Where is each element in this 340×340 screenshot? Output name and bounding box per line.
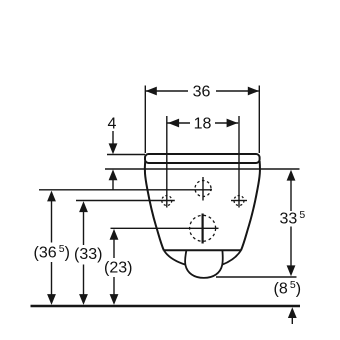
- bowl right edge: [241, 161, 260, 250]
- water supply circle N1: [195, 181, 211, 197]
- dim 36 line left segment: [146, 90, 188, 92]
- 33_5 down arrowhead: [287, 265, 296, 276]
- left dim line (36_5): [51, 193, 53, 302]
- (36_5) down arrowhead: [47, 294, 56, 305]
- (23) down arrowhead: [110, 294, 119, 305]
- left fixing hole cross horizontal (merged with left leader): [76, 200, 175, 202]
- outlet tongue: [185, 250, 223, 278]
- dim 18 right arrowhead: [227, 119, 238, 128]
- dim 4 down arrowhead: [109, 143, 118, 154]
- svg-text:(33): (33): [74, 246, 102, 263]
- dim 36 right arrowhead: [248, 87, 259, 96]
- right dim line 33_5: [290, 173, 292, 274]
- toilet top plate: [145, 154, 260, 163]
- bowl underside right arc: [222, 250, 241, 264]
- dim 4 up arrow shaft: [112, 174, 114, 190]
- outlet cross vertical: [202, 214, 204, 244]
- svg-text:(23): (23): [104, 260, 132, 277]
- right fixing hole cross vertical / 18 extension: [238, 116, 240, 208]
- left fixing hole: [162, 196, 172, 206]
- dim 4 down arrow shaft: [112, 131, 114, 150]
- floor up arrow shaft: [291, 311, 293, 324]
- svg-text:(8 5): (8 5): [274, 279, 302, 298]
- left dim line (23): [113, 232, 115, 303]
- (33) up arrowhead: [79, 201, 88, 212]
- water supply cross horizontal (merged with left leader): [39, 189, 212, 191]
- dim 36 line right segment: [216, 90, 259, 92]
- floor line: [31, 305, 301, 307]
- svg-text:36: 36: [193, 84, 211, 101]
- outlet bottom leader line: [216, 276, 297, 278]
- seat line: [105, 168, 300, 170]
- (36_5) up arrowhead: [47, 191, 56, 202]
- right fixing hole: [234, 196, 244, 206]
- top surface leader line: [107, 154, 145, 156]
- right fixing hole cross horizontal: [231, 200, 247, 202]
- outlet cross horizontal (merged with left leader): [111, 227, 219, 229]
- dim 18 line left segment: [168, 122, 191, 124]
- (23) up arrowhead: [110, 229, 119, 240]
- floor up arrowhead: [288, 307, 297, 318]
- bowl left edge: [145, 161, 164, 250]
- dim 18 line right segment: [215, 122, 238, 124]
- bowl underside left arc: [164, 250, 186, 264]
- svg-text:(36 5): (36 5): [34, 243, 70, 262]
- dim 36 left extension: [144, 86, 146, 154]
- dim 4 up arrowhead: [109, 169, 118, 180]
- left dim line (33): [83, 204, 85, 302]
- water supply cross vertical: [202, 177, 204, 201]
- left fixing hole cross vertical / 18 extension: [166, 116, 168, 208]
- dim 36 right extension: [258, 86, 260, 154]
- bowl bottom seam: [164, 249, 241, 251]
- svg-text:18: 18: [194, 116, 212, 133]
- (33) down arrowhead: [79, 294, 88, 305]
- 33_5 up arrowhead: [287, 170, 296, 181]
- dim 18 left arrowhead: [168, 119, 179, 128]
- dim 36 left arrowhead: [146, 87, 157, 96]
- svg-text:4: 4: [108, 116, 117, 133]
- outlet circle N2: [190, 215, 216, 241]
